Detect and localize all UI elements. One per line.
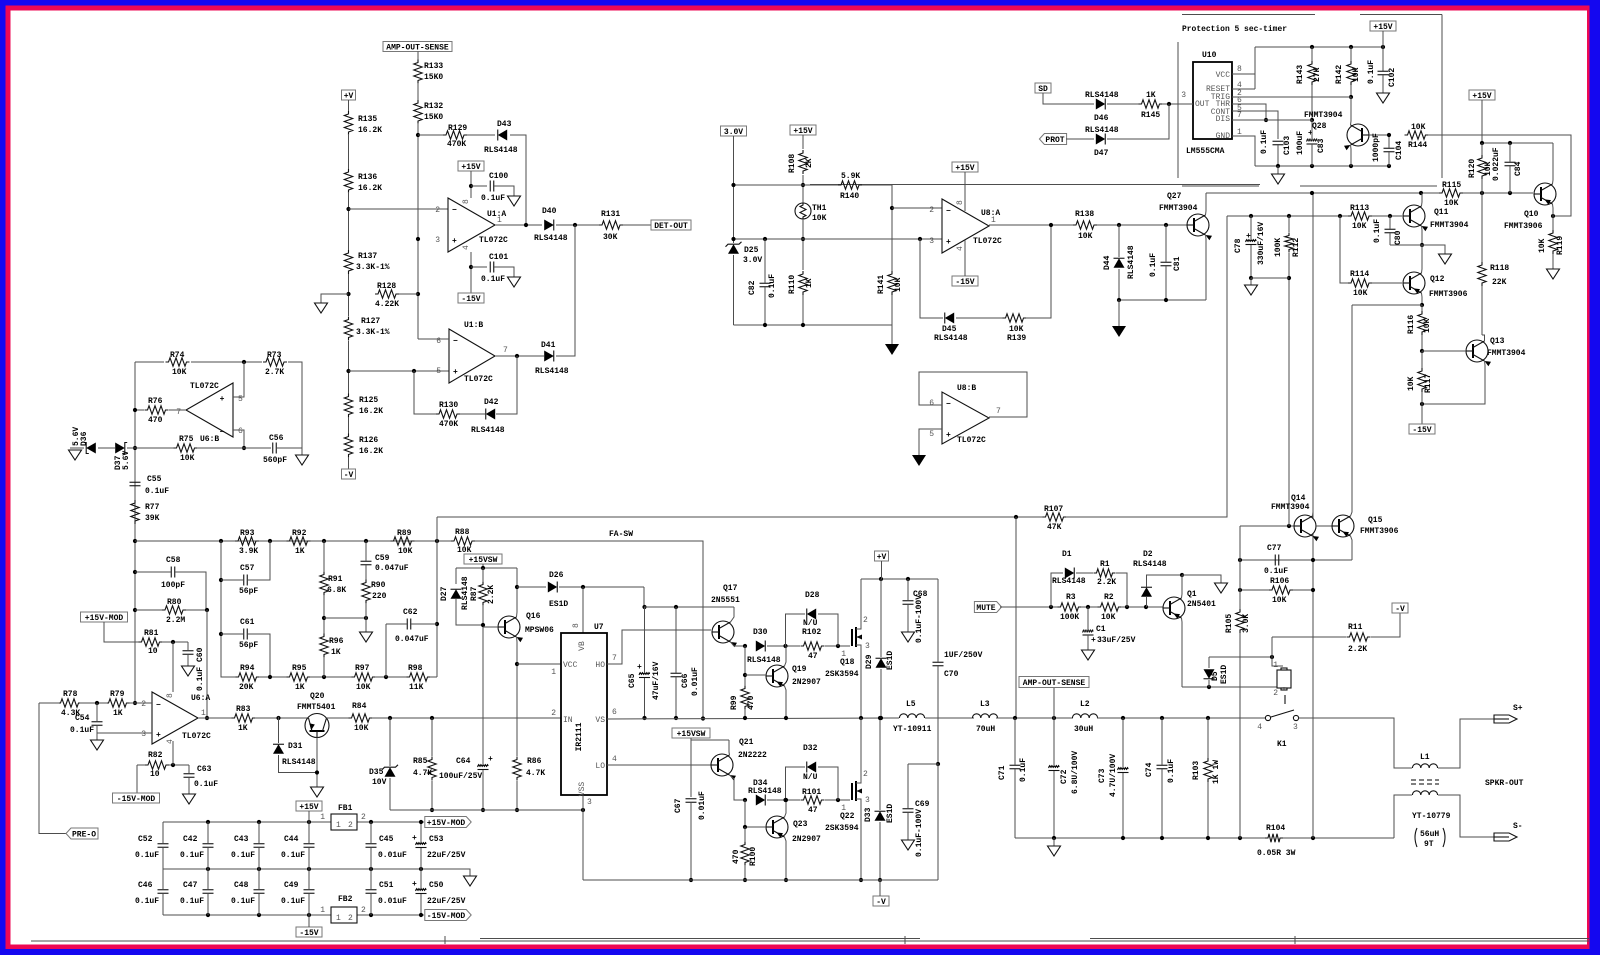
ground: [1272, 174, 1285, 184]
svg-text:70uH: 70uH: [976, 725, 995, 734]
wire: [825, 799, 850, 801]
wire: [370, 848, 372, 869]
svg-text:10K: 10K: [894, 277, 903, 292]
svg-text:R2: R2: [1104, 593, 1114, 602]
svg-text:+: +: [220, 395, 225, 404]
junction: [1420, 243, 1424, 247]
wire: [310, 676, 352, 678]
wire: [470, 171, 472, 198]
junction: [515, 662, 519, 666]
svg-text:4: 4: [166, 739, 175, 744]
wire THR pin6: [1232, 104, 1266, 120]
wire: [556, 224, 599, 226]
wire out row: [198, 717, 232, 719]
svg-text:1K: 1K: [295, 683, 305, 692]
svg-text:−: −: [946, 400, 951, 409]
svg-text:R145: R145: [1141, 111, 1160, 120]
junction: [763, 323, 767, 327]
svg-text:R96: R96: [329, 637, 344, 646]
wire: [516, 781, 518, 810]
svg-text:+15VSW: +15VSW: [469, 556, 498, 565]
diode D44: [1114, 258, 1125, 268]
svg-text:15K0: 15K0: [424, 73, 443, 82]
wire: [98, 447, 115, 449]
diode D33: [875, 811, 886, 821]
svg-text:3.0K: 3.0K: [1242, 614, 1251, 633]
wire Q14 base row: [1240, 525, 1294, 527]
svg-text:16.2K: 16.2K: [358, 184, 382, 193]
wire: [937, 666, 939, 764]
svg-text:2.2K: 2.2K: [1097, 578, 1116, 587]
junction: [1164, 223, 1168, 227]
svg-text:+: +: [946, 431, 951, 440]
svg-text:470K: 470K: [447, 140, 466, 149]
capacitor C56: [272, 443, 274, 454]
svg-text:0.1uF: 0.1uF: [231, 851, 255, 860]
resistor R89: [391, 537, 415, 545]
junction: [412, 369, 416, 373]
svg-text:2K: 2K: [805, 158, 814, 168]
net label +15VSW: [464, 554, 502, 564]
resistor R129: [443, 131, 467, 139]
junction: [1086, 605, 1090, 609]
svg-text:330uF/16V: 330uF/16V: [1257, 222, 1266, 265]
junction: [1480, 191, 1484, 195]
junction: [268, 675, 272, 679]
svg-text:2: 2: [929, 206, 934, 215]
wire D1 branch: [1051, 573, 1063, 607]
resistor R83: [232, 714, 256, 722]
svg-text:+: +: [488, 755, 493, 764]
svg-text:C54: C54: [75, 714, 90, 723]
wire: [964, 172, 966, 211]
junction: [1049, 605, 1053, 609]
junction: [219, 578, 223, 582]
wire: [1272, 637, 1283, 666]
wire: [278, 717, 280, 743]
resistor R142: [1347, 61, 1355, 85]
wire: [1121, 606, 1163, 608]
junction: [364, 539, 368, 543]
svg-text:GND: GND: [1216, 132, 1231, 141]
resistor R132: [414, 100, 422, 124]
wire: [818, 614, 838, 646]
svg-text:10K: 10K: [1407, 376, 1416, 391]
resistor R104: [1265, 834, 1283, 842]
wire y216 row: [1227, 215, 1348, 217]
svg-text:−: −: [453, 337, 458, 346]
svg-text:R78: R78: [63, 690, 78, 699]
svg-text:100uF/25V: 100uF/25V: [439, 772, 482, 781]
ground: [1082, 650, 1095, 660]
junction: [890, 206, 894, 210]
wire: [644, 607, 646, 673]
svg-text:D1: D1: [1062, 550, 1072, 559]
wire Q18 source: [860, 645, 862, 718]
net flag -15V-MOD: [425, 910, 471, 921]
svg-text:+: +: [156, 731, 161, 740]
svg-text:10K: 10K: [1352, 67, 1361, 82]
wire Q15 emitter: [1351, 305, 1353, 516]
svg-text:TL072C: TL072C: [973, 237, 1002, 246]
wire: [1390, 244, 1422, 246]
svg-text:Q19: Q19: [792, 665, 807, 674]
diode D27: [451, 589, 462, 599]
svg-text:4: 4: [1257, 723, 1262, 732]
junction: [581, 585, 585, 589]
junction: [743, 825, 747, 829]
wire: [348, 134, 350, 170]
junction: [1013, 716, 1017, 720]
wire D45 fb: [920, 239, 943, 318]
svg-text:ES1D: ES1D: [1220, 665, 1229, 684]
svg-text:VCC: VCC: [1216, 71, 1231, 80]
svg-text:C104: C104: [1395, 141, 1404, 160]
junction: [369, 867, 373, 871]
svg-text:+15V: +15V: [1472, 92, 1491, 101]
wire: [96, 733, 98, 740]
junction: [1311, 558, 1315, 562]
wire pin2 U1:A: [349, 208, 449, 210]
svg-text:6: 6: [436, 337, 441, 346]
wire: [516, 664, 518, 756]
junction: [515, 354, 519, 358]
wire: [175, 572, 206, 610]
junction: [469, 184, 473, 188]
svg-text:3.9K: 3.9K: [239, 547, 258, 556]
wire: [207, 848, 209, 869]
ferrite FB1: [331, 814, 357, 830]
wire U1:B out: [495, 355, 544, 357]
svg-text:-V: -V: [1395, 605, 1405, 614]
svg-text:Q11: Q11: [1434, 208, 1449, 217]
ground: [360, 632, 373, 642]
svg-text:R139: R139: [1007, 334, 1026, 343]
wire: [1372, 282, 1402, 284]
svg-text:10K: 10K: [180, 454, 195, 463]
wire: [1239, 633, 1241, 838]
resistor R110: [799, 271, 807, 295]
wire gnd filter rail: [1015, 837, 1266, 839]
wire Q16 emitter: [516, 637, 519, 664]
wire: [802, 175, 804, 203]
wire: [1097, 224, 1187, 226]
wire: [1026, 225, 1051, 318]
wire: [162, 822, 164, 843]
svg-text:1UF/250V: 1UF/250V: [944, 651, 983, 660]
svg-text:R99: R99: [730, 695, 739, 710]
wire: [221, 579, 243, 581]
wire left vertical: [134, 362, 136, 703]
svg-text:16.2K: 16.2K: [359, 447, 383, 456]
wire Q23 collector: [785, 837, 787, 880]
svg-text:10K: 10K: [398, 547, 413, 556]
svg-text:C57: C57: [240, 564, 255, 573]
svg-text:R94: R94: [240, 664, 255, 673]
svg-text:100K: 100K: [1060, 613, 1079, 622]
diode D41: [544, 351, 554, 362]
svg-text:Q13: Q13: [1490, 337, 1505, 346]
wire: [1209, 656, 1272, 658]
svg-text:1K 1W: 1K 1W: [1212, 760, 1221, 784]
resistor R126: [344, 434, 352, 458]
net label +V: [342, 90, 356, 100]
junction: [1121, 716, 1125, 720]
resistor R98: [407, 673, 431, 681]
net label DET-OUT: [651, 220, 691, 230]
capacitor C102: [1378, 70, 1389, 72]
svg-text:D43: D43: [497, 120, 512, 129]
net label -15V U8A: [952, 276, 978, 286]
svg-text:+15V: +15V: [955, 164, 974, 173]
op-amp U8:B: [942, 392, 989, 444]
svg-text:5: 5: [929, 430, 934, 439]
svg-text:R73: R73: [267, 351, 282, 360]
wire: [420, 894, 422, 915]
svg-text:R84: R84: [352, 702, 367, 711]
transistor Q18 2SK3594: [851, 629, 853, 646]
svg-text:FMMT3906: FMMT3906: [1360, 527, 1399, 536]
svg-text:U8:B: U8:B: [957, 384, 976, 393]
resistor R135: [344, 111, 352, 135]
wire: [207, 822, 209, 843]
resistor R120: [1478, 155, 1486, 179]
wire gnd stub: [321, 294, 349, 303]
connector S+: [1494, 715, 1517, 723]
junction: [133, 408, 137, 412]
junction: [171, 763, 175, 767]
capacitor C104: [1384, 147, 1395, 149]
wire: [1208, 680, 1210, 687]
wire: [956, 317, 1003, 319]
svg-text:R127: R127: [361, 317, 380, 326]
wire: [135, 361, 164, 363]
svg-text:0.1uF: 0.1uF: [768, 274, 777, 298]
ground power: [885, 344, 899, 355]
junction: [1338, 214, 1342, 218]
junction: [1164, 298, 1168, 302]
wire AMP-OUT-SENSE vertical: [1015, 517, 1017, 718]
svg-text:7: 7: [996, 407, 1001, 416]
wire: [1481, 179, 1483, 193]
wire Q22 source: [860, 799, 862, 880]
junction: [731, 183, 735, 187]
resistor R131: [599, 221, 623, 229]
net label -15V q13: [1409, 424, 1435, 434]
junction: [1052, 836, 1056, 840]
junction: [1381, 45, 1385, 49]
svg-text:-15V: -15V: [1412, 426, 1431, 435]
svg-text:+15V: +15V: [793, 127, 812, 136]
capacitor C53: [416, 843, 427, 845]
svg-text:AMP-OUT-SENSE: AMP-OUT-SENSE: [1023, 679, 1086, 688]
junction: [481, 566, 485, 570]
svg-text:0.1uF: 0.1uF: [1167, 759, 1176, 783]
wire: [1481, 143, 1483, 155]
svg-text:2N2222: 2N2222: [738, 751, 767, 760]
junction: [242, 446, 246, 450]
svg-text:R97: R97: [355, 664, 370, 673]
op-amp U1:B: [449, 329, 495, 383]
junction: [1121, 836, 1125, 840]
wire HO: [607, 630, 711, 664]
wire: [365, 565, 367, 580]
resistor R105: [1236, 609, 1244, 633]
svg-text:R108: R108: [788, 154, 797, 173]
wire: [482, 605, 484, 627]
svg-text:470: 470: [747, 695, 756, 710]
diode D42: [486, 409, 495, 420]
wire: [825, 645, 850, 647]
junction: [133, 570, 137, 574]
wire: [1382, 75, 1384, 93]
relay contact K1: [1265, 715, 1270, 720]
wire: [375, 676, 407, 678]
wire: [1293, 589, 1313, 591]
wire C70 bottom link: [908, 764, 938, 880]
junction: [836, 644, 840, 648]
wire: [802, 135, 804, 149]
junction: [801, 237, 805, 241]
svg-text:C65: C65: [628, 673, 637, 688]
svg-text:D33: D33: [864, 807, 873, 822]
wire: [744, 827, 746, 842]
junction: [95, 701, 99, 705]
svg-text:2N2907: 2N2907: [792, 678, 821, 687]
svg-text:1K: 1K: [238, 724, 248, 733]
wire: [323, 541, 325, 572]
svg-text:R143: R143: [1296, 65, 1305, 84]
wire: [456, 599, 483, 625]
capacitor C77: [1274, 555, 1276, 566]
junction: [701, 716, 705, 720]
svg-text:2.2K: 2.2K: [1348, 645, 1367, 654]
capacitor C83: [1307, 139, 1318, 141]
svg-text:0.01uF: 0.01uF: [698, 791, 707, 820]
svg-text:-V: -V: [344, 471, 354, 480]
svg-text:+V: +V: [877, 553, 887, 562]
svg-text:C71: C71: [998, 765, 1007, 780]
wire: [420, 848, 422, 869]
svg-text:5: 5: [436, 367, 441, 376]
inductor L3: [972, 714, 997, 718]
op-amp U1:A: [448, 198, 495, 252]
wire LO row: [607, 764, 711, 766]
svg-text:C53: C53: [429, 835, 444, 844]
svg-text:10K: 10K: [172, 368, 187, 377]
svg-text:R125: R125: [359, 396, 378, 405]
svg-text:RLS4148: RLS4148: [747, 656, 781, 665]
zener D25: [728, 244, 739, 254]
svg-text:2SK3594: 2SK3594: [825, 670, 859, 679]
wire: [556, 225, 575, 356]
wire: [1250, 245, 1252, 278]
wire R112 extension: [1288, 278, 1290, 526]
svg-text:10K: 10K: [1101, 613, 1116, 622]
junction: [1264, 118, 1268, 122]
svg-text:10K: 10K: [1353, 289, 1368, 298]
svg-text:RLS4148: RLS4148: [1085, 126, 1119, 135]
svg-text:TL072C: TL072C: [190, 382, 219, 391]
junction: [276, 716, 280, 720]
wire Q14-Q15 link: [1316, 525, 1332, 527]
resistor R144: [1405, 131, 1429, 139]
svg-text:4: 4: [612, 755, 617, 764]
resistor R143: [1308, 61, 1316, 85]
zener D35: [385, 767, 396, 777]
resistor R133: [414, 60, 422, 84]
wire: [1000, 606, 1058, 608]
wire: [186, 609, 207, 611]
svg-text:RLS4148: RLS4148: [1052, 577, 1086, 586]
svg-text:3.0V: 3.0V: [743, 256, 762, 265]
junction: [242, 360, 246, 364]
protection box left line: [1177, 42, 1179, 178]
wire: [370, 894, 372, 915]
svg-text:0.1uF: 0.1uF: [145, 487, 169, 496]
wire: [323, 595, 325, 634]
svg-text:VSS: VSS: [578, 782, 587, 797]
svg-text:-15V-MOD: -15V-MOD: [117, 795, 156, 804]
svg-text:C56: C56: [269, 434, 284, 443]
svg-text:D26: D26: [549, 571, 564, 580]
wire Q23 emitter: [785, 800, 787, 817]
svg-text:0.1uF: 0.1uF: [1019, 758, 1028, 782]
ground: [1245, 285, 1258, 295]
resistor R75: [174, 444, 198, 452]
transistor Q14: [1294, 515, 1316, 537]
junction: [1207, 685, 1211, 689]
svg-text:Q22: Q22: [840, 812, 855, 821]
svg-text:0.1uF: 0.1uF: [180, 897, 204, 906]
capacitor C65: [639, 673, 650, 675]
capacitor C67: [686, 798, 697, 800]
svg-text:2: 2: [141, 700, 146, 709]
svg-text:RLS4148: RLS4148: [535, 367, 569, 376]
svg-text:C49: C49: [284, 881, 299, 890]
net label +15V th1: [790, 125, 816, 135]
resistor R93: [235, 537, 259, 545]
wire: [1394, 795, 1412, 838]
wire: [417, 123, 419, 339]
diode D29: [876, 658, 887, 668]
svg-text:FMMT3904: FMMT3904: [1271, 503, 1310, 512]
wire: [169, 764, 189, 766]
wire +V rail: [861, 578, 938, 580]
wire: [1299, 718, 1413, 768]
junction: [573, 223, 577, 227]
resistor R116: [1418, 311, 1426, 335]
svg-text:VS: VS: [595, 716, 605, 725]
svg-text:7: 7: [176, 408, 181, 417]
ground: [296, 455, 309, 465]
resistor R79: [106, 699, 130, 707]
svg-text:+15V-MOD: +15V-MOD: [85, 614, 124, 623]
wire: [258, 894, 260, 915]
wire bootstrap row: [644, 606, 734, 608]
resistor R84: [349, 714, 373, 722]
wire: [880, 579, 882, 657]
svg-text:0.01uF: 0.01uF: [378, 897, 407, 906]
resistor R102: [801, 642, 825, 650]
diode D45: [945, 313, 954, 324]
svg-text:3: 3: [1181, 91, 1186, 100]
wire: [623, 224, 652, 226]
ground: [182, 666, 195, 676]
svg-text:C45: C45: [379, 835, 394, 844]
wire FA-SW: [475, 541, 703, 718]
junction: [1125, 605, 1129, 609]
